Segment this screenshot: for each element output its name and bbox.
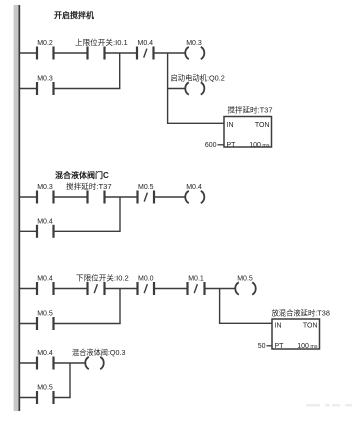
junction drop net4 bbox=[69, 363, 71, 398]
contact M0.2 bbox=[37, 47, 54, 60]
svg-text:M0.3: M0.3 bbox=[37, 76, 53, 83]
svg-text:混合液体阀门C: 混合液体阀门C bbox=[55, 170, 109, 180]
svg-text:PT: PT bbox=[275, 343, 285, 350]
left power rail bbox=[18, 5, 20, 411]
contact M0.5 branch net3 bbox=[37, 317, 54, 330]
svg-text:M0.1: M0.1 bbox=[188, 276, 204, 283]
svg-text:M0.5: M0.5 bbox=[37, 385, 53, 392]
left margin gray band bbox=[14, 5, 19, 411]
wire rung4 bbox=[19, 362, 85, 364]
junction drop net3 left bbox=[119, 289, 121, 324]
svg-text:搅拌延时:T37: 搅拌延时:T37 bbox=[228, 104, 273, 114]
svg-text:开启搅拌机: 开启搅拌机 bbox=[54, 10, 94, 20]
contact I0.2 NC bbox=[88, 282, 105, 295]
timer T38 feed bbox=[219, 322, 272, 324]
svg-text:下限位开关:I0.2: 下限位开关:I0.2 bbox=[76, 273, 129, 283]
coil M0.4 net2 bbox=[185, 191, 204, 203]
coil Q0.2 bbox=[185, 82, 204, 94]
svg-text:M0.5: M0.5 bbox=[237, 276, 253, 283]
svg-text:混合液体阀:Q0.3: 混合液体阀:Q0.3 bbox=[72, 348, 126, 357]
contact M0.4 net3 bbox=[37, 282, 54, 295]
coil Q0.2 feed bbox=[167, 88, 185, 90]
svg-text:M0.3: M0.3 bbox=[186, 40, 202, 47]
svg-text:启动电动机:Q0.2: 启动电动机:Q0.2 bbox=[171, 74, 225, 83]
svg-text:TON: TON bbox=[255, 122, 270, 129]
contact M0.4 net4 bbox=[37, 357, 54, 370]
contact M0.3 branch bbox=[37, 82, 54, 95]
contact M0.3 net2 bbox=[37, 191, 54, 204]
svg-text:M0.4: M0.4 bbox=[138, 40, 154, 47]
timer T38 box bbox=[272, 319, 320, 349]
faint watermark bottom right bbox=[306, 404, 352, 407]
svg-text:50: 50 bbox=[258, 343, 266, 350]
contact M0.5 NC net2 bbox=[138, 191, 155, 204]
svg-text:100 ms: 100 ms bbox=[297, 343, 318, 350]
svg-text:M0.5: M0.5 bbox=[37, 311, 53, 318]
svg-text:搅拌延时:T37: 搅拌延时:T37 bbox=[66, 181, 112, 191]
svg-text:M0.4: M0.4 bbox=[37, 276, 53, 283]
svg-text:IN: IN bbox=[275, 322, 282, 329]
contact M0.5 branch net4 bbox=[37, 391, 54, 404]
timer T37 box bbox=[224, 117, 272, 148]
contact M0.0 NC bbox=[138, 282, 155, 295]
svg-text:IN: IN bbox=[227, 122, 234, 129]
svg-text:100 ms: 100 ms bbox=[249, 142, 270, 149]
svg-text:M0.5: M0.5 bbox=[138, 184, 154, 191]
svg-text:600: 600 bbox=[205, 142, 217, 149]
timer T37 feed bbox=[167, 122, 224, 124]
PT pin T38 bbox=[267, 345, 273, 347]
contact M0.4 branch net2 bbox=[37, 225, 54, 238]
svg-text:PT: PT bbox=[227, 142, 237, 149]
junction drop net2 bbox=[119, 197, 121, 231]
svg-text:TON: TON bbox=[303, 322, 318, 329]
branch wire net4 bbox=[19, 397, 71, 399]
branch wire net3 bbox=[19, 323, 121, 325]
branch wire net2 bbox=[19, 230, 121, 232]
wire rung3 bbox=[19, 288, 235, 290]
svg-text:M0.0: M0.0 bbox=[138, 276, 154, 283]
coil Q0.3 bbox=[85, 357, 103, 369]
branch riser net1 bbox=[119, 53, 121, 89]
wire rung1 bbox=[19, 52, 185, 54]
svg-text:M0.4: M0.4 bbox=[37, 350, 53, 357]
junction drop net3 right bbox=[219, 289, 221, 324]
PT pin T37 bbox=[218, 144, 225, 146]
wire rung2 bbox=[19, 196, 185, 198]
junction drop net1 bbox=[167, 53, 169, 123]
coil M0.5 net3 bbox=[235, 282, 255, 294]
coil M0.3 bbox=[185, 47, 204, 59]
svg-text:上限位开关:I0.1: 上限位开关:I0.1 bbox=[75, 37, 128, 47]
contact I0.1 bbox=[88, 47, 105, 60]
svg-text:M0.2: M0.2 bbox=[37, 40, 53, 47]
svg-text:M0.4: M0.4 bbox=[37, 218, 53, 225]
svg-text:M0.4: M0.4 bbox=[186, 184, 202, 191]
svg-text:放混合液延时:T38: 放混合液延时:T38 bbox=[272, 308, 330, 317]
contact T37 bbox=[88, 191, 105, 204]
branch wire net1 bbox=[19, 88, 120, 90]
contact M0.4 NC bbox=[137, 47, 154, 60]
contact M0.1 NC bbox=[188, 282, 205, 295]
svg-text:M0.3: M0.3 bbox=[37, 184, 53, 191]
